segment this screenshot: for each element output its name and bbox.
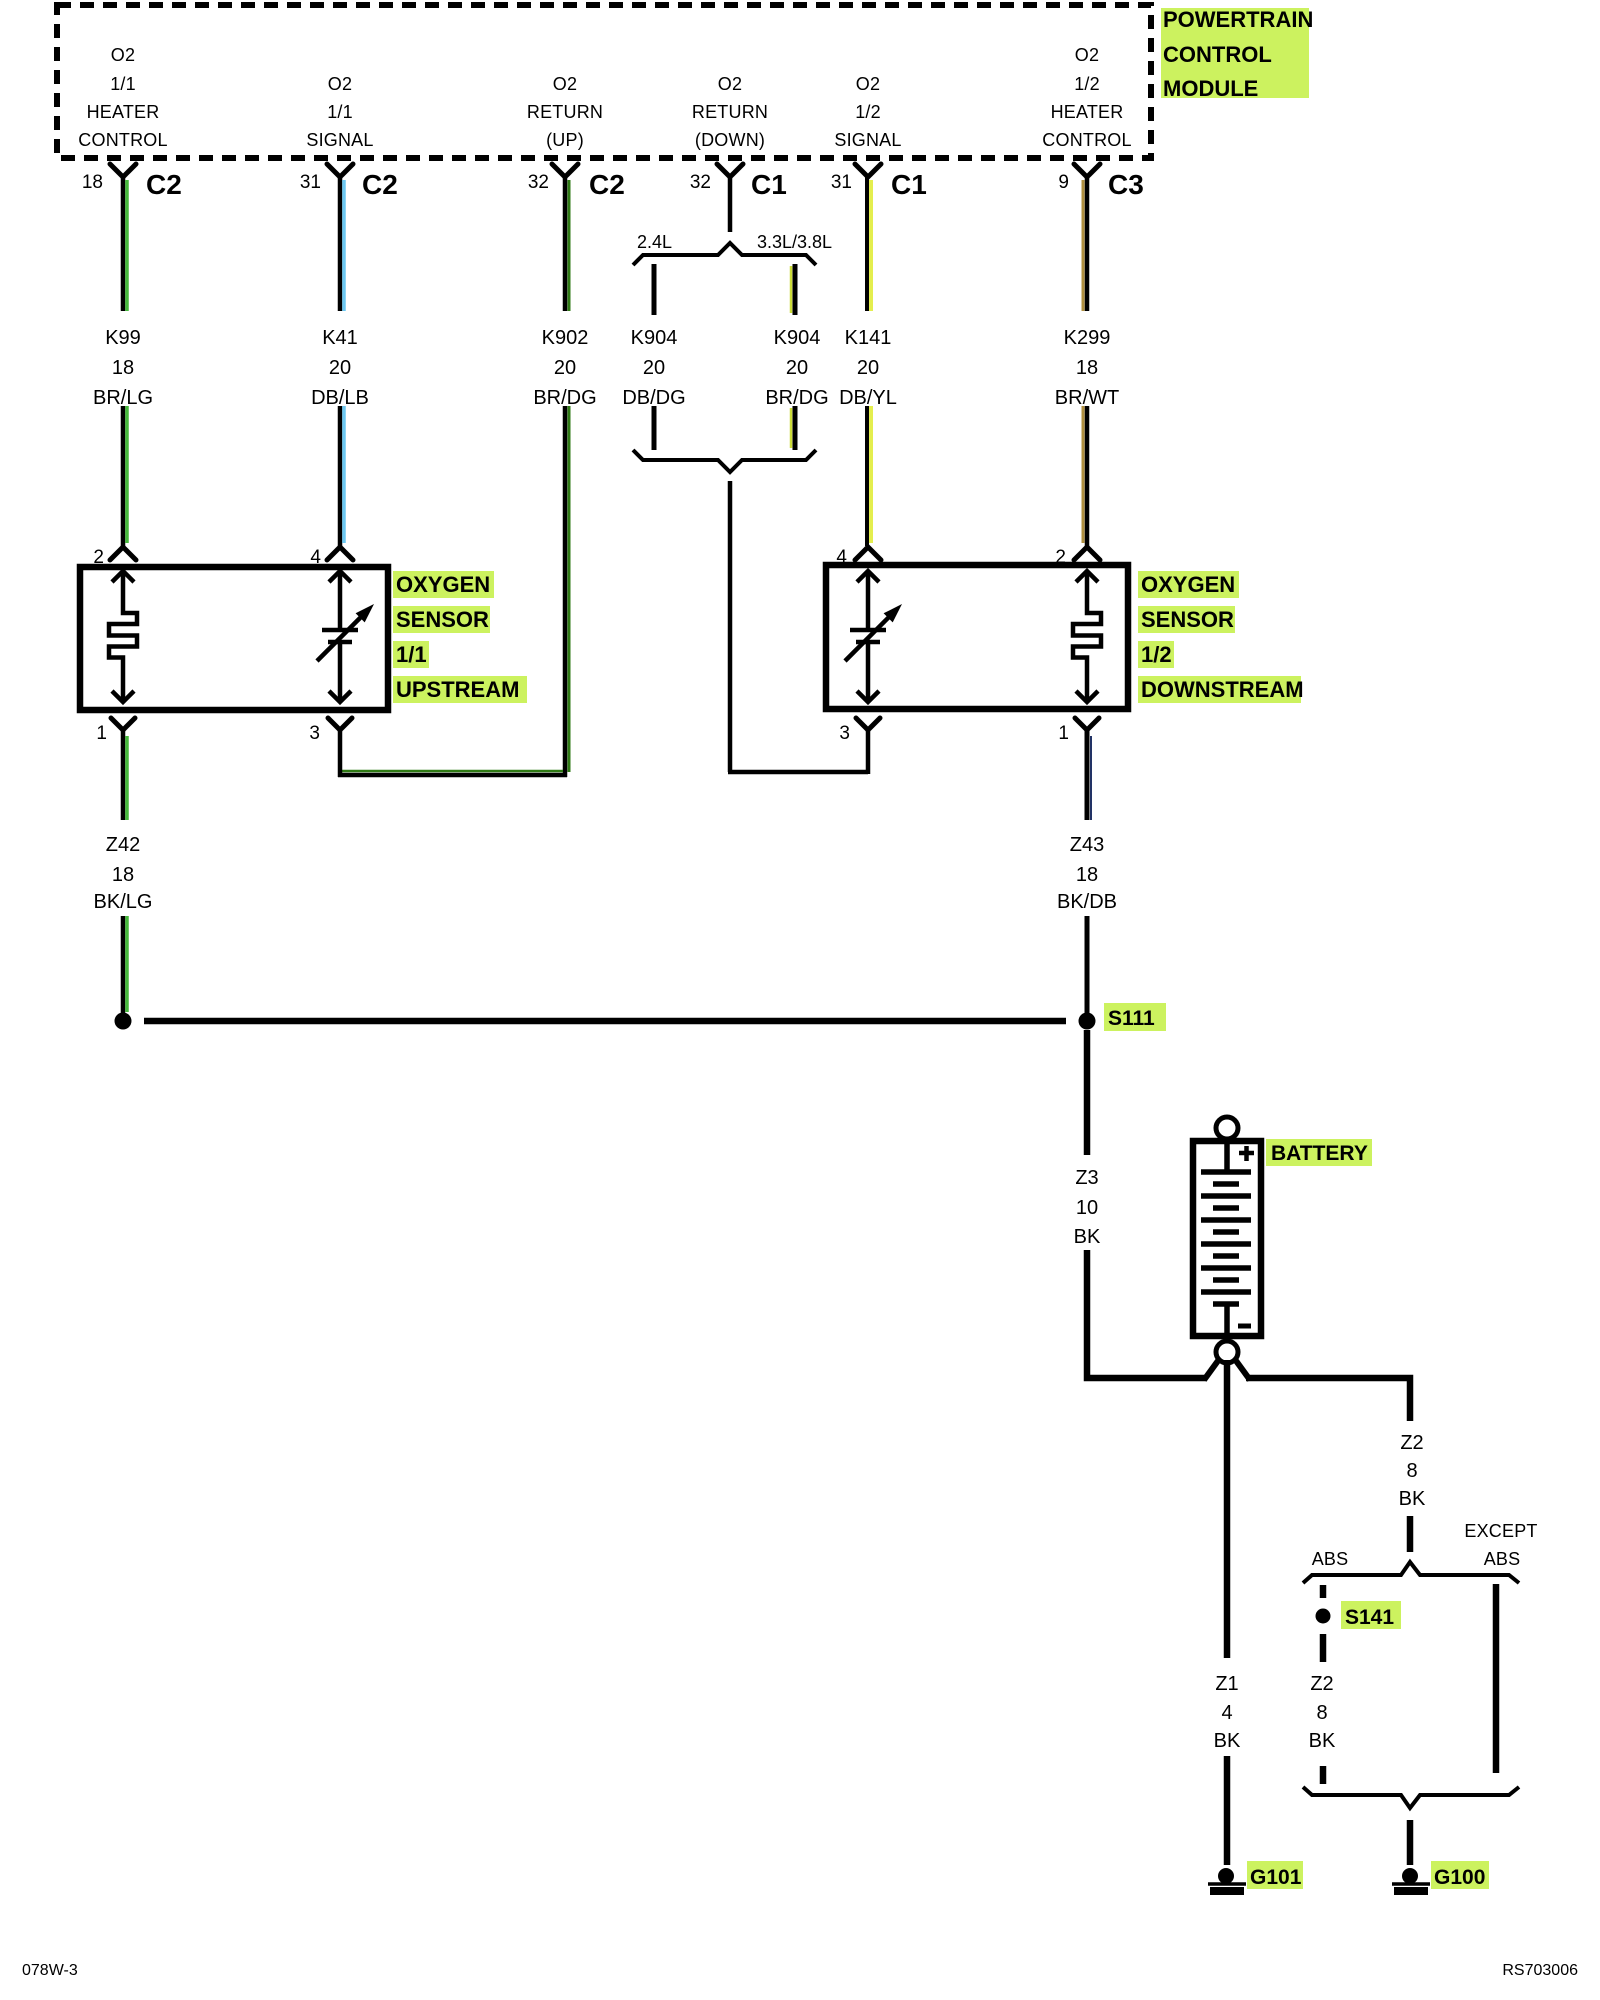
svg-text:C2: C2 xyxy=(146,169,182,200)
wire Z3 lower segment to battery junction xyxy=(1087,1250,1206,1378)
svg-text:20: 20 xyxy=(329,357,351,379)
svg-text:G101: G101 xyxy=(1250,1866,1302,1889)
wire K904 2.4L upper stub xyxy=(652,264,657,315)
svg-text:078W-3: 078W-3 xyxy=(22,1962,78,1979)
svg-text:C1: C1 xyxy=(751,169,787,200)
svg-text:SENSOR: SENSOR xyxy=(1141,607,1234,632)
wire Z42 lower segment (BK/LG) xyxy=(123,916,127,1014)
label G101 xyxy=(1247,1861,1303,1889)
wire stub to G100 xyxy=(1407,1820,1414,1865)
wire EXCEPT-ABS branch xyxy=(1493,1584,1500,1773)
svg-text:BR/DG: BR/DG xyxy=(765,387,828,409)
engine option merge brace xyxy=(633,450,816,472)
svg-text:4: 4 xyxy=(310,547,321,568)
wire O2 return down horizontal to pin 3 xyxy=(728,770,868,775)
svg-text:BR/DG: BR/DG xyxy=(533,387,596,409)
svg-text:EXCEPT: EXCEPT xyxy=(1464,1521,1537,1541)
wire label Z2 8 BK (upper) xyxy=(1399,1432,1426,1510)
svg-text:CONTROL: CONTROL xyxy=(78,130,167,150)
svg-text:18: 18 xyxy=(1076,357,1098,379)
wire K299 lower segment (BR/WT) xyxy=(1083,406,1087,546)
wire label K904 20 DB/DG xyxy=(622,327,685,409)
svg-text:1/2: 1/2 xyxy=(1074,74,1100,94)
svg-text:BR/WT: BR/WT xyxy=(1055,387,1119,409)
svg-text:K141: K141 xyxy=(845,327,892,349)
svg-text:18: 18 xyxy=(112,357,134,379)
svg-text:18: 18 xyxy=(112,864,134,886)
wire K904 2.4L lower stub xyxy=(652,406,657,450)
svg-text:BATTERY: BATTERY xyxy=(1271,1142,1368,1165)
node label O2 RETURN (DOWN) xyxy=(692,74,768,150)
svg-text:4: 4 xyxy=(836,547,847,568)
wire ABS branch lower stub xyxy=(1320,1766,1327,1784)
wire K904 3.3L lower stub xyxy=(791,406,795,450)
wire K99 upper segment (BR/LG) xyxy=(123,177,127,311)
wire K902 horizontal to sensor pin 3 xyxy=(338,771,567,775)
sensor element 1/1 (variable cell with arrow) xyxy=(317,571,374,702)
node label O2 1/2 SIGNAL xyxy=(834,74,901,150)
svg-text:S111: S111 xyxy=(1108,1007,1155,1030)
ground G101 xyxy=(1208,1868,1246,1891)
svg-text:20: 20 xyxy=(857,357,879,379)
wire K41 lower segment (DB/LB) xyxy=(340,406,344,546)
wire label Z1 4 BK xyxy=(1214,1673,1241,1752)
wire Z2 stub above split xyxy=(1407,1516,1414,1552)
pin 2 top chevron xyxy=(93,547,136,568)
wire downstream pin3 stem xyxy=(866,730,871,774)
svg-text:DB/LB: DB/LB xyxy=(311,387,369,409)
svg-text:Z2: Z2 xyxy=(1310,1673,1333,1695)
wire label Z42 18 BK/LG xyxy=(94,834,153,913)
svg-text:31: 31 xyxy=(300,172,321,193)
svg-text:2: 2 xyxy=(93,547,104,568)
splice S111 dot xyxy=(1079,1013,1096,1030)
svg-text:K99: K99 xyxy=(105,327,141,349)
wire ABS branch stub xyxy=(1320,1585,1327,1598)
svg-text:1/1: 1/1 xyxy=(396,642,427,667)
svg-text:ABS: ABS xyxy=(1484,1549,1521,1569)
svg-text:20: 20 xyxy=(554,357,576,379)
svg-text:3: 3 xyxy=(309,723,320,744)
svg-text:1: 1 xyxy=(1058,723,1069,744)
sensor element 1/2 (variable cell with arrow) xyxy=(845,571,902,702)
connector pin 31 C1 xyxy=(831,164,927,200)
sensor element pin arrows (downstream pin4/pin3) xyxy=(857,571,879,702)
svg-text:O2: O2 xyxy=(553,74,577,94)
svg-text:O2: O2 xyxy=(1075,45,1099,65)
ground G100 xyxy=(1392,1868,1430,1891)
splice S141 dot xyxy=(1316,1609,1331,1624)
svg-text:4: 4 xyxy=(1221,1702,1232,1724)
svg-text:K902: K902 xyxy=(542,327,589,349)
wire label Z43 18 BK/DB xyxy=(1057,834,1117,913)
svg-text:BK/LG: BK/LG xyxy=(94,891,153,913)
label G100 xyxy=(1431,1861,1489,1889)
sensor element pin arrows (upstream pin4/pin3) xyxy=(329,571,351,702)
svg-text:Z1: Z1 xyxy=(1215,1673,1238,1695)
wire Z43 upper segment (BK/DB) xyxy=(1087,730,1091,820)
svg-text:1/2: 1/2 xyxy=(1141,642,1172,667)
wire Z2 horizontal to corner xyxy=(1246,1378,1410,1421)
svg-text:2.4L: 2.4L xyxy=(637,232,672,252)
wire Z1 lower segment xyxy=(1224,1756,1231,1865)
svg-text:CONTROL: CONTROL xyxy=(1163,42,1272,67)
wire label K99 18 BR/LG xyxy=(93,327,153,409)
wire label K141 20 DB/YL xyxy=(839,327,897,409)
svg-text:O2: O2 xyxy=(856,74,880,94)
connector pin 9 C3 xyxy=(1058,164,1143,200)
label OXYGEN SENSOR 1/1 UPSTREAM xyxy=(393,571,527,703)
engine option split brace (2.4L / 3.3L-3.8L) xyxy=(633,243,816,265)
svg-text:K41: K41 xyxy=(322,327,358,349)
svg-text:UPSTREAM: UPSTREAM xyxy=(396,677,519,702)
svg-text:BR/LG: BR/LG xyxy=(93,387,153,409)
svg-text:S141: S141 xyxy=(1345,1606,1394,1629)
svg-text:ABS: ABS xyxy=(1312,1549,1349,1569)
svg-text:OXYGEN: OXYGEN xyxy=(396,572,490,597)
svg-text:C1: C1 xyxy=(891,169,927,200)
wire K141 upper segment (DB/YL) xyxy=(867,177,871,311)
svg-text:20: 20 xyxy=(786,357,808,379)
svg-text:3.3L/3.8L: 3.3L/3.8L xyxy=(757,232,832,252)
wire O2 return down long vertical xyxy=(728,481,733,772)
wire S111 bus horizontal xyxy=(144,1018,1066,1025)
svg-text:DB/DG: DB/DG xyxy=(622,387,685,409)
svg-text:BK: BK xyxy=(1214,1730,1241,1752)
svg-text:C2: C2 xyxy=(589,169,625,200)
svg-text:8: 8 xyxy=(1406,1460,1417,1482)
svg-text:BK: BK xyxy=(1074,1226,1101,1248)
wire O2 return down stem from C1-32 xyxy=(728,177,733,232)
svg-text:32: 32 xyxy=(690,172,711,193)
label POWERTRAIN CONTROL MODULE xyxy=(1161,7,1313,101)
node label O2 1/1 HEATER CONTROL xyxy=(78,45,167,150)
pin 1 bottom Y downstream xyxy=(1058,718,1099,744)
svg-text:BK: BK xyxy=(1399,1488,1426,1510)
svg-text:BK: BK xyxy=(1309,1730,1336,1752)
wire battery negative left diagonal xyxy=(1204,1358,1220,1380)
svg-text:18: 18 xyxy=(82,172,103,193)
connector pin 32 C1 xyxy=(690,164,787,200)
svg-text:31: 31 xyxy=(831,172,852,193)
wire pin3 stem to return-up route xyxy=(338,730,343,777)
svg-text:Z43: Z43 xyxy=(1070,834,1104,856)
wire K902 lower segment to corner (BR/DG) xyxy=(565,406,569,777)
svg-text:HEATER: HEATER xyxy=(1051,102,1124,122)
svg-text:Z2: Z2 xyxy=(1400,1432,1423,1454)
heater element pin arrows (downstream pin2/pin1) xyxy=(1076,571,1098,702)
wire ABS branch stub below dot xyxy=(1320,1634,1327,1662)
wire label K299 18 BR/WT xyxy=(1055,327,1119,409)
svg-text:POWERTRAIN: POWERTRAIN xyxy=(1163,7,1313,32)
svg-text:10: 10 xyxy=(1076,1197,1098,1219)
pin 4 top chevron downstream xyxy=(836,547,881,568)
wire label Z3 10 BK xyxy=(1074,1167,1101,1248)
node label O2 RETURN (UP) xyxy=(527,74,603,150)
svg-text:18: 18 xyxy=(1076,864,1098,886)
wire Z43 lower segment xyxy=(1085,916,1090,1014)
heater element 1/1 (crenellated resistor) xyxy=(109,571,137,702)
svg-text:(UP): (UP) xyxy=(546,130,584,150)
wire K141 lower segment (DB/YL) xyxy=(867,406,871,546)
wire K99 lower segment (BR/LG) xyxy=(123,406,127,546)
svg-text:1: 1 xyxy=(96,723,107,744)
node label O2 1/1 SIGNAL xyxy=(306,74,373,150)
oxygen sensor 1/2 downstream box xyxy=(826,565,1128,709)
svg-text:DB/YL: DB/YL xyxy=(839,387,897,409)
label S141 xyxy=(1341,1601,1401,1629)
pin 1 bottom Y xyxy=(96,718,135,744)
svg-text:1/1: 1/1 xyxy=(327,102,353,122)
svg-text:32: 32 xyxy=(528,172,549,193)
svg-text:8: 8 xyxy=(1316,1702,1327,1724)
battery B1 xyxy=(1193,1117,1261,1363)
wire K41 upper segment (DB/LB) xyxy=(340,177,344,311)
heater element pin arrows (upstream pin2/pin1) xyxy=(112,571,134,702)
splice junction dot left xyxy=(115,1013,132,1030)
wire battery negative right diagonal xyxy=(1234,1358,1250,1380)
svg-text:K299: K299 xyxy=(1064,327,1111,349)
svg-text:DOWNSTREAM: DOWNSTREAM xyxy=(1141,677,1304,702)
svg-text:RS703006: RS703006 xyxy=(1502,1962,1578,1979)
svg-text:9: 9 xyxy=(1058,172,1069,193)
svg-text:G100: G100 xyxy=(1434,1866,1485,1889)
svg-text:C2: C2 xyxy=(362,169,398,200)
svg-text:Z42: Z42 xyxy=(106,834,140,856)
label OXYGEN SENSOR 1/2 DOWNSTREAM xyxy=(1138,571,1304,703)
svg-text:SIGNAL: SIGNAL xyxy=(306,130,373,150)
connector pin 32 C2 xyxy=(528,164,625,200)
svg-text:Z3: Z3 xyxy=(1075,1167,1098,1189)
wire K904 3.3L upper stub xyxy=(791,264,795,315)
svg-text:O2: O2 xyxy=(328,74,352,94)
wire label K902 20 BR/DG xyxy=(533,327,596,409)
svg-text:K904: K904 xyxy=(631,327,678,349)
svg-text:MODULE: MODULE xyxy=(1163,76,1258,101)
svg-text:SIGNAL: SIGNAL xyxy=(834,130,901,150)
pin 2 top chevron downstream xyxy=(1055,547,1100,568)
wire Z1 stem below battery xyxy=(1224,1360,1231,1658)
oxygen sensor 1/1 upstream box xyxy=(80,567,388,710)
pin 4 top chevron xyxy=(310,547,353,568)
svg-text:O2: O2 xyxy=(111,45,135,65)
svg-text:OXYGEN: OXYGEN xyxy=(1141,572,1235,597)
svg-text:HEATER: HEATER xyxy=(87,102,160,122)
connector pin 18 C2 xyxy=(82,164,182,200)
pin 3 bottom Y xyxy=(309,718,352,744)
svg-text:O2: O2 xyxy=(718,74,742,94)
PCM dashed module box xyxy=(57,5,1151,158)
ABS option split brace xyxy=(1303,1562,1519,1583)
svg-text:K904: K904 xyxy=(774,327,821,349)
wire label Z2 8 BK (ABS branch) xyxy=(1309,1673,1336,1752)
label S111 xyxy=(1104,1003,1166,1031)
wire Z42 upper segment (BK/LG) xyxy=(123,730,127,820)
pin 3 bottom Y downstream xyxy=(839,718,880,744)
svg-text:1/1: 1/1 xyxy=(110,74,136,94)
label BATTERY xyxy=(1266,1139,1372,1166)
svg-text:CONTROL: CONTROL xyxy=(1042,130,1131,150)
svg-text:3: 3 xyxy=(839,723,850,744)
svg-text:SENSOR: SENSOR xyxy=(396,607,489,632)
svg-text:RETURN: RETURN xyxy=(692,102,768,122)
wire K299 upper segment (BR/WT) xyxy=(1083,177,1087,311)
wire Z3 upper segment (BK) xyxy=(1084,1030,1091,1155)
svg-text:1/2: 1/2 xyxy=(855,102,881,122)
svg-text:C3: C3 xyxy=(1108,169,1144,200)
wire K902 upper segment (BR/DG) xyxy=(565,177,569,311)
wire label K904 20 BR/DG xyxy=(765,327,828,409)
svg-text:2: 2 xyxy=(1055,547,1066,568)
svg-text:20: 20 xyxy=(643,357,665,379)
ABS option merge brace xyxy=(1303,1787,1519,1808)
svg-text:RETURN: RETURN xyxy=(527,102,603,122)
heater element 1/2 (crenellated resistor) xyxy=(1073,571,1101,702)
connector pin 31 C2 xyxy=(300,164,398,200)
node label O2 1/2 HEATER CONTROL xyxy=(1042,45,1131,150)
svg-text:BK/DB: BK/DB xyxy=(1057,891,1117,913)
svg-text:(DOWN): (DOWN) xyxy=(695,130,765,150)
wire label K41 20 DB/LB xyxy=(311,327,369,409)
